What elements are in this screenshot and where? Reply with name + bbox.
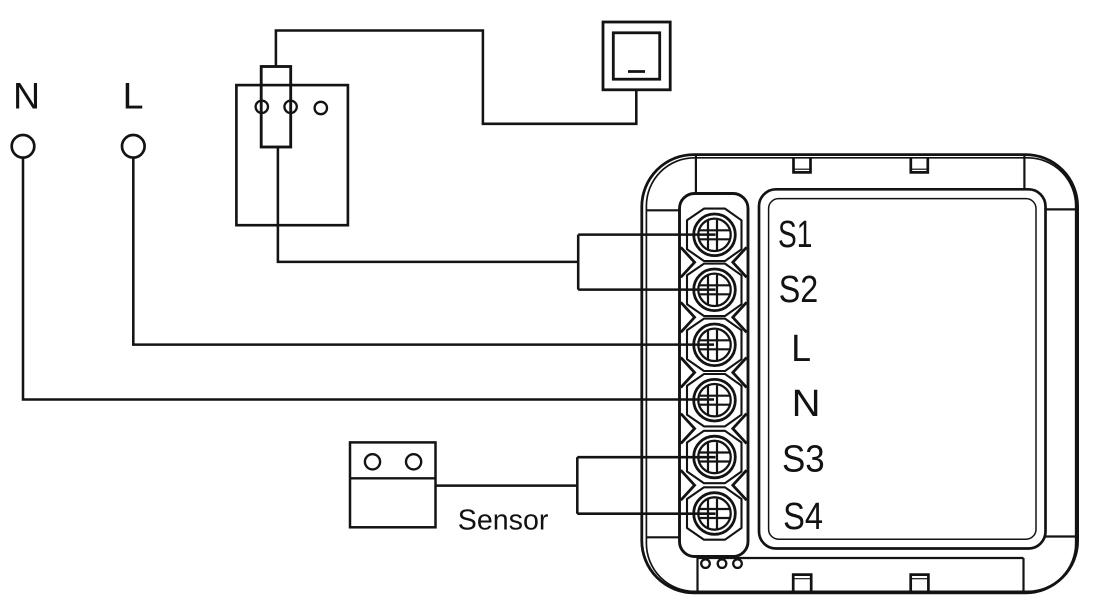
- seam right-upper: [1046, 208, 1076, 210]
- wire: load bottom to S1/S2 junction: [278, 147, 578, 262]
- chevrons between pockets: [681, 247, 747, 500]
- wire S2: [578, 288, 715, 291]
- wire S3: [577, 456, 715, 459]
- screw S3: [694, 436, 736, 478]
- sensor contact circle right: [406, 454, 421, 469]
- device outer shell: [642, 155, 1078, 593]
- terminal circle N: [12, 135, 35, 158]
- seam top-right: [1023, 156, 1025, 190]
- load terminal circle left: [256, 101, 268, 113]
- svg-text:S3: S3: [782, 437, 825, 480]
- screw S4: [694, 493, 736, 535]
- svg-text:N: N: [792, 383, 821, 425]
- junction bar S3-S4: [576, 457, 579, 514]
- screw N: [694, 379, 736, 421]
- bottom deck line: [698, 557, 1024, 559]
- seam left-upper: [646, 209, 679, 211]
- top mounting tab 2: [911, 159, 928, 173]
- junction box (load fixture): [236, 85, 348, 225]
- seam left-lower: [646, 536, 679, 538]
- foot circle 2: [718, 559, 727, 568]
- sensor box: [350, 442, 436, 527]
- sensor box divider: [350, 477, 436, 479]
- pocket L: [687, 319, 742, 371]
- svg-text:L: L: [123, 75, 144, 117]
- screw L: [694, 324, 736, 366]
- wire: load top to wall switch: [276, 31, 636, 124]
- bottom mounting tab 2: [911, 575, 929, 592]
- wire S1: [578, 233, 715, 236]
- pocket S1: [687, 209, 742, 261]
- top mounting tab 1: [794, 159, 811, 173]
- front panel inner line: [769, 199, 1036, 540]
- svg-text:N: N: [13, 75, 40, 117]
- wire S4: [577, 512, 715, 515]
- deck left post: [696, 558, 698, 591]
- sensor contact circle left: [365, 454, 380, 469]
- screw S1: [694, 214, 736, 256]
- bottom mounting tab 1: [793, 575, 811, 592]
- spare terminal circle: [315, 102, 327, 114]
- load element rectangle: [261, 67, 291, 148]
- junction bar S1-S2: [577, 235, 580, 290]
- terminal housing: [680, 194, 749, 557]
- svg-text:S4: S4: [783, 496, 823, 538]
- svg-text:L: L: [791, 327, 811, 369]
- pocket N: [687, 374, 742, 426]
- svg-text:Sensor: Sensor: [458, 505, 549, 537]
- screw S2: [694, 269, 736, 311]
- wire L: from L terminal to device L screw: [133, 158, 714, 345]
- wall switch rocker mark: [628, 70, 645, 73]
- wire: sensor to S3/S4 junction: [436, 484, 578, 487]
- wire N: from N terminal to device N screw: [23, 158, 714, 400]
- foot circle 1: [701, 559, 710, 568]
- seam top-left: [695, 156, 697, 194]
- svg-text:S2: S2: [779, 269, 819, 311]
- pocket S2: [687, 264, 742, 316]
- seam right-lower: [1046, 535, 1076, 537]
- pocket S4: [687, 487, 742, 539]
- terminal circle L: [122, 135, 145, 158]
- front panel outer: [759, 189, 1046, 548]
- svg-text:S1: S1: [778, 214, 812, 256]
- deck right post: [1022, 558, 1024, 591]
- wall switch outer frame: [603, 22, 670, 90]
- load terminal circle right: [284, 101, 296, 113]
- foot circle 3: [733, 559, 742, 568]
- wall switch rocker: [613, 33, 659, 79]
- device inner shell line: [646, 158, 1075, 592]
- pocket S3: [687, 431, 742, 483]
